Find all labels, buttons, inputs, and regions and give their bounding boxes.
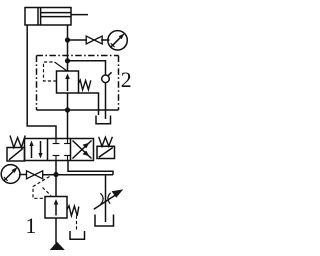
pump source triangle <box>50 242 65 250</box>
valve2 internal arrow <box>65 74 70 92</box>
DCV left square arrows <box>29 141 42 159</box>
tank bracket T2 <box>96 116 111 124</box>
DCV left return spring <box>10 136 25 148</box>
piston rod extension <box>71 14 88 16</box>
node dot3 <box>65 107 70 112</box>
throttle adjustment arrow <box>94 189 123 209</box>
pressure gauge PG2 (top right) <box>108 31 127 50</box>
enclosure box of component 2 (dash-dot) <box>37 56 119 111</box>
valve1 pilot dashed line <box>33 177 51 199</box>
DCV right return spring <box>99 137 113 147</box>
ball orifice circle with tick <box>102 72 112 82</box>
wire: branch right to shut-off valve <box>68 39 88 41</box>
valve2 pilot dashed loop <box>44 62 57 81</box>
throttle arcs <box>100 193 110 204</box>
pressure gauge PG1 (bottom left) <box>1 165 20 184</box>
shut-off valve 2 (bowtie, bottom left) <box>27 171 43 179</box>
svg-text:1: 1 <box>25 214 36 238</box>
wire: cylinder right port down to node dot1 <box>67 25 69 40</box>
node dot1 <box>65 37 70 42</box>
DCV right square crossed arrows <box>73 141 92 159</box>
node dot2 <box>65 58 70 63</box>
valve2 spring-chamber drain <box>79 93 99 115</box>
wire: ball down to tank bracket T2 <box>105 83 107 119</box>
throttle flow line <box>105 175 107 222</box>
wire: dot3 down to DCV port B <box>67 110 69 139</box>
tank bracket A (valve1 drain) <box>70 231 85 239</box>
wire: valve1 bottom to pump source <box>55 218 57 243</box>
DCV body (3 position squares) <box>25 139 94 161</box>
valve1 internal arrow <box>54 199 59 216</box>
wire: DCV T port elbow joining bleed-off run <box>68 161 113 175</box>
node dot4 <box>53 172 58 177</box>
shut-off valve (bowtie, top) <box>86 36 102 44</box>
valve1 relief square <box>45 197 67 219</box>
DCV right solenoid box <box>97 146 115 158</box>
wire: cylinder left port down then right to DCV port A <box>27 25 56 139</box>
tank bracket T3 (return) <box>95 215 114 227</box>
wire: valve2 bottom to dot3 <box>67 93 69 110</box>
valve2 spring <box>79 80 91 90</box>
wire: DCV P port down through dot4 to valve1 <box>55 161 57 197</box>
wire: shut-off valve to gauge <box>101 39 110 41</box>
cylinder body <box>25 8 71 26</box>
wire: gauge1 link <box>19 174 26 176</box>
wire: bleed-off run from dot4 to right end <box>43 174 113 176</box>
wire: pilot branch from dot2 right then down to ball <box>68 61 106 75</box>
valve2 pilot diagonal <box>55 62 67 71</box>
wire: main line dot1 to valve2 top port <box>67 40 69 71</box>
svg-text:2: 2 <box>121 68 132 92</box>
valve1 spring drain (dashed) <box>76 216 78 232</box>
valve2 relief square <box>57 71 79 93</box>
solid bottom run of enclosure <box>37 109 119 111</box>
valve1 spring <box>67 206 79 216</box>
DCV left solenoid box <box>7 148 25 162</box>
DCV centre square blocked ports (T symbols) <box>53 139 71 161</box>
